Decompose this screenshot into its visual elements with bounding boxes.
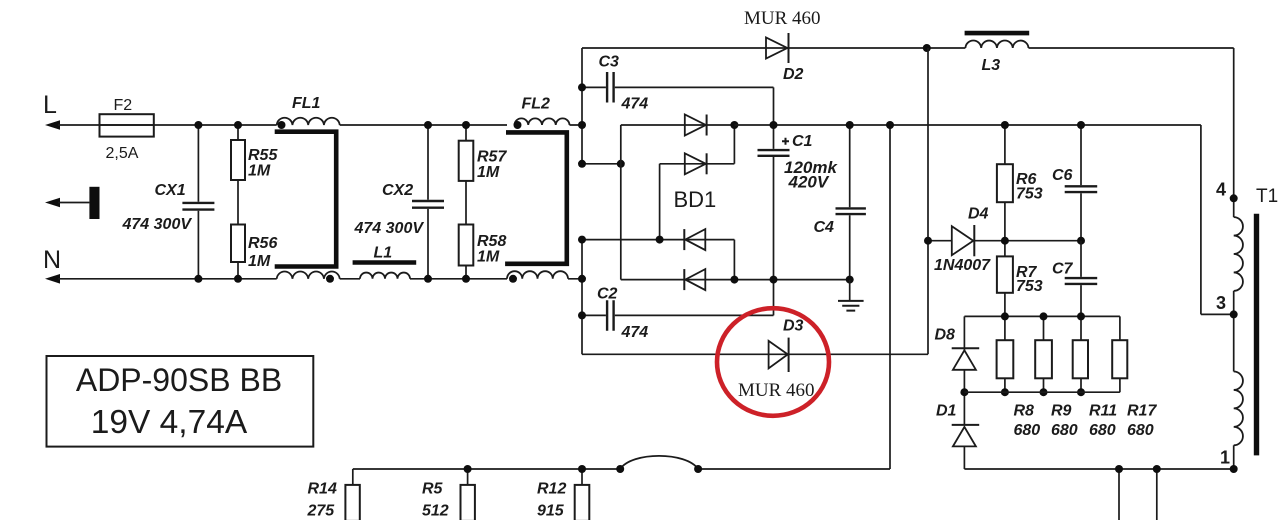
junction dot FL2 top / main vertical bbox=[578, 121, 586, 129]
svg-text:R5: R5 bbox=[422, 481, 444, 498]
resistor R55 1M bbox=[231, 125, 278, 225]
svg-text:D1: D1 bbox=[936, 403, 957, 420]
capacitor C4 bbox=[814, 125, 866, 280]
capacitor C6 bbox=[1052, 121, 1097, 245]
label BD1 bbox=[674, 187, 717, 212]
FL1 bottom winding bbox=[277, 272, 340, 283]
wire D2/D3 cathode vertical bbox=[927, 48, 929, 354]
svg-text:1M: 1M bbox=[477, 164, 500, 181]
inductor L3 bbox=[965, 33, 1030, 74]
diode D4 1N4007 bbox=[924, 206, 1081, 275]
common-mode choke FL1 top winding bbox=[277, 95, 340, 129]
transformer T1 pin 1 bbox=[1220, 448, 1238, 474]
svg-text:T1: T1 bbox=[1256, 186, 1278, 207]
svg-text:D2: D2 bbox=[783, 66, 804, 83]
svg-text:680: 680 bbox=[1051, 422, 1078, 439]
junction dots CX1/R55 on L line bbox=[194, 121, 242, 129]
transformer T1 pin 4 bbox=[1216, 180, 1238, 203]
diode D3 MUR 460 bbox=[738, 318, 815, 402]
resistor R14 275 bbox=[307, 469, 360, 520]
junction dot D8/D1 bbox=[960, 388, 968, 396]
transformer T1 pin 3 bbox=[1216, 293, 1238, 318]
svg-text:L3: L3 bbox=[982, 57, 1001, 74]
junction dot C2 on main vertical bbox=[578, 311, 586, 319]
svg-text:R55: R55 bbox=[248, 147, 278, 164]
svg-text:680: 680 bbox=[1127, 422, 1154, 439]
svg-text:915: 915 bbox=[537, 503, 565, 520]
PE electrode bar bbox=[89, 187, 99, 219]
junction dots C1 bbox=[770, 121, 778, 284]
inductor L1 bbox=[353, 245, 417, 279]
svg-text:753: 753 bbox=[1016, 186, 1043, 203]
svg-text:R17: R17 bbox=[1127, 403, 1157, 420]
svg-text:MUR 460: MUR 460 bbox=[738, 380, 815, 401]
resistor R57 1M bbox=[459, 125, 508, 225]
bridge BD1 left edge bbox=[620, 125, 622, 280]
wire FL2 outputs to main vertical bbox=[568, 125, 582, 279]
wire output taps going down bbox=[1115, 465, 1161, 520]
resistor R17 680 bbox=[1112, 316, 1157, 439]
svg-text:R8: R8 bbox=[1014, 403, 1035, 420]
junction dots CX1/R56 on N line bbox=[194, 275, 242, 283]
bridge BD1 row3 wire (AC2) bbox=[578, 236, 734, 280]
capacitor C3 474 bbox=[582, 54, 774, 124]
svg-text:D4: D4 bbox=[968, 206, 989, 223]
wire D3 anode line from main vertical bbox=[582, 353, 928, 355]
transformer T1 primary lower winding bbox=[1234, 372, 1243, 470]
wire sub rail below R7/C7 bbox=[964, 315, 1120, 317]
bridge BD1 row4 wire (- rail) bbox=[621, 279, 850, 281]
bridge BD1 row2 wire bbox=[660, 125, 735, 240]
wire right rail from + rail corner to T1 pin 3 bbox=[1201, 125, 1234, 314]
svg-text:R11: R11 bbox=[1089, 403, 1117, 420]
svg-text:474: 474 bbox=[621, 96, 649, 113]
svg-text:C4: C4 bbox=[814, 219, 835, 236]
FL2 bottom winding bbox=[507, 271, 568, 283]
svg-text:D3: D3 bbox=[783, 318, 804, 335]
svg-text:C1: C1 bbox=[792, 133, 813, 150]
svg-text:C7: C7 bbox=[1052, 261, 1074, 278]
svg-text:L1: L1 bbox=[374, 245, 393, 262]
svg-text:19V 4,74A: 19V 4,74A bbox=[91, 404, 248, 441]
svg-text:474: 474 bbox=[621, 324, 649, 341]
wire bridge AC1 stub bbox=[578, 160, 625, 168]
transformer T1 primary upper winding bbox=[1234, 217, 1243, 371]
svg-text:FL1: FL1 bbox=[292, 95, 321, 112]
bridge BD1 diode b (row2) bbox=[685, 153, 707, 174]
junction dot C3 on main vertical bbox=[578, 83, 586, 91]
junction dots CX2/R58 on N line bbox=[424, 275, 470, 283]
junction dots C4 bbox=[846, 121, 854, 284]
wire top rail from main vertical to D2 and beyond bbox=[582, 47, 965, 49]
svg-text:1M: 1M bbox=[477, 249, 500, 266]
svg-text:N: N bbox=[43, 246, 61, 274]
wire L line FL1 to FL2 bbox=[340, 124, 507, 126]
wire PE bbox=[58, 202, 89, 204]
svg-text:275: 275 bbox=[307, 503, 336, 520]
svg-text:2,5A: 2,5A bbox=[106, 145, 139, 162]
node N terminal arrow bbox=[43, 246, 61, 284]
wire main vertical segment A (L node) bbox=[581, 48, 583, 164]
transformer T1 core bbox=[1256, 186, 1278, 455]
svg-text:D8: D8 bbox=[935, 327, 956, 344]
FL2 core bbox=[505, 132, 567, 263]
node L terminal arrow bbox=[43, 91, 60, 130]
red highlight circle around D3 bbox=[717, 308, 829, 416]
wire main vertical segment B (N node) down to D3 line bbox=[581, 240, 583, 355]
node PE terminal arrow bbox=[45, 198, 60, 208]
svg-text:CX2: CX2 bbox=[382, 182, 413, 199]
svg-text:1: 1 bbox=[1220, 448, 1230, 468]
svg-text:753: 753 bbox=[1016, 278, 1043, 295]
svg-text:R12: R12 bbox=[537, 481, 566, 498]
wire bottom resistor rail bbox=[353, 468, 890, 470]
resistor R6 753 bbox=[997, 121, 1043, 256]
diode D1 bbox=[936, 403, 979, 470]
svg-text:BD1: BD1 bbox=[674, 187, 717, 212]
FL1 core bbox=[275, 132, 337, 267]
svg-text:1M: 1M bbox=[248, 163, 271, 180]
svg-text:R58: R58 bbox=[477, 233, 506, 250]
resistor R11 680 bbox=[1073, 312, 1118, 439]
junction dots CX2/R57 on L line bbox=[424, 121, 470, 129]
resistor R5 512 bbox=[422, 465, 475, 520]
resistor R12 915 bbox=[537, 465, 589, 520]
resistor R7 753 bbox=[997, 256, 1043, 316]
wire N line FL1 to L1 bbox=[340, 278, 360, 280]
svg-text:680: 680 bbox=[1014, 422, 1041, 439]
svg-text:680: 680 bbox=[1089, 422, 1116, 439]
fuse F2 2,5A bbox=[100, 97, 154, 162]
svg-text:CX1: CX1 bbox=[155, 182, 186, 199]
common-mode choke FL2 top winding bbox=[514, 96, 570, 130]
svg-text:ADP-90SB BB: ADP-90SB BB bbox=[76, 362, 282, 398]
capacitor CX1 474 300V bbox=[122, 125, 215, 279]
wire parallel resistor bottom rail bbox=[964, 391, 1120, 393]
svg-text:4: 4 bbox=[1216, 180, 1226, 200]
svg-text:F2: F2 bbox=[114, 97, 133, 114]
svg-text:420V: 420V bbox=[788, 173, 830, 192]
label box ADP-90SB BB 19V 4,74A bbox=[47, 356, 314, 447]
capacitor C7 bbox=[1052, 241, 1097, 317]
jumper link arc bbox=[616, 456, 702, 473]
junction dot FL2 bottom / main vertical bbox=[578, 275, 586, 283]
svg-text:474 300V: 474 300V bbox=[122, 216, 193, 233]
wire N line from arrow to FL1 bbox=[58, 278, 277, 280]
wire L line from arrow to FL1 bbox=[58, 124, 277, 126]
wire top rail L3 to T1 pin4 bbox=[1029, 48, 1234, 217]
bridge BD1 diode a (row1) bbox=[685, 115, 707, 136]
wire N line L1 to FL2 bbox=[410, 278, 507, 280]
wire riser + rail down to bottom wire bbox=[886, 121, 894, 469]
capacitor C1 120mk 420V bbox=[758, 125, 839, 280]
resistor R58 1M bbox=[459, 225, 507, 279]
svg-text:R57: R57 bbox=[477, 149, 507, 166]
resistor R56 1M bbox=[231, 225, 277, 279]
resistor R8 680 bbox=[997, 312, 1041, 439]
svg-text:C3: C3 bbox=[599, 54, 620, 71]
junction dots bridge + node bbox=[730, 121, 738, 284]
bridge BD1 row1 wire (+ rail through diode) bbox=[621, 124, 735, 126]
svg-text:474 300V: 474 300V bbox=[354, 220, 425, 237]
diode D2 MUR 460 bbox=[744, 8, 821, 83]
svg-text:FL2: FL2 bbox=[522, 96, 551, 113]
svg-text:C6: C6 bbox=[1052, 167, 1073, 184]
svg-text:R14: R14 bbox=[308, 481, 337, 498]
svg-text:L: L bbox=[43, 91, 57, 119]
capacitor C2 474 bbox=[582, 280, 774, 341]
svg-text:1M: 1M bbox=[248, 253, 271, 270]
svg-text:512: 512 bbox=[422, 503, 449, 520]
junction dot top rail / D2-D3 vertical bbox=[923, 44, 931, 52]
diode D8 bbox=[935, 316, 980, 425]
svg-text:3: 3 bbox=[1216, 293, 1226, 313]
bridge BD1 diode d (row4) bbox=[684, 269, 705, 290]
wire + rail to right edge bbox=[734, 124, 1201, 126]
svg-text:MUR 460: MUR 460 bbox=[744, 8, 821, 29]
capacitor CX2 474 300V bbox=[354, 125, 445, 279]
wire T1 pin1 line bbox=[964, 468, 1233, 470]
svg-text:1N4007: 1N4007 bbox=[934, 257, 991, 274]
ground symbol bbox=[838, 280, 864, 311]
bridge BD1 diode c (row3) bbox=[684, 229, 705, 250]
svg-text:R56: R56 bbox=[248, 235, 277, 252]
resistor R9 680 bbox=[1035, 312, 1078, 439]
svg-text:R9: R9 bbox=[1051, 403, 1072, 420]
svg-text:C2: C2 bbox=[597, 286, 618, 303]
